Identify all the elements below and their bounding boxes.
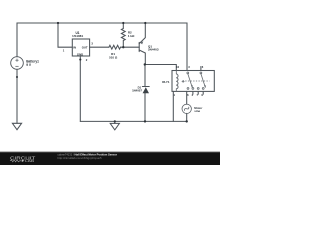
svg-text:LAB: LAB <box>25 159 35 163</box>
svg-text:10: 10 <box>176 65 179 69</box>
svg-text:US1881: US1881 <box>72 34 83 38</box>
svg-text:http://circuitlab.com/c/b6gnj4: http://circuitlab.com/c/b6gnj4/npuo5 <box>58 156 102 160</box>
svg-text:1N4007: 1N4007 <box>132 88 142 92</box>
svg-text:RLY1: RLY1 <box>162 80 170 84</box>
svg-text:sine: sine <box>194 109 200 113</box>
svg-text:1 kΩ: 1 kΩ <box>128 34 135 38</box>
svg-text:IN: IN <box>73 45 76 49</box>
svg-text:510 Ω: 510 Ω <box>109 56 118 60</box>
svg-text:GND: GND <box>77 52 83 56</box>
svg-text:OUT: OUT <box>82 45 88 49</box>
svg-text:2N4403: 2N4403 <box>148 47 159 51</box>
